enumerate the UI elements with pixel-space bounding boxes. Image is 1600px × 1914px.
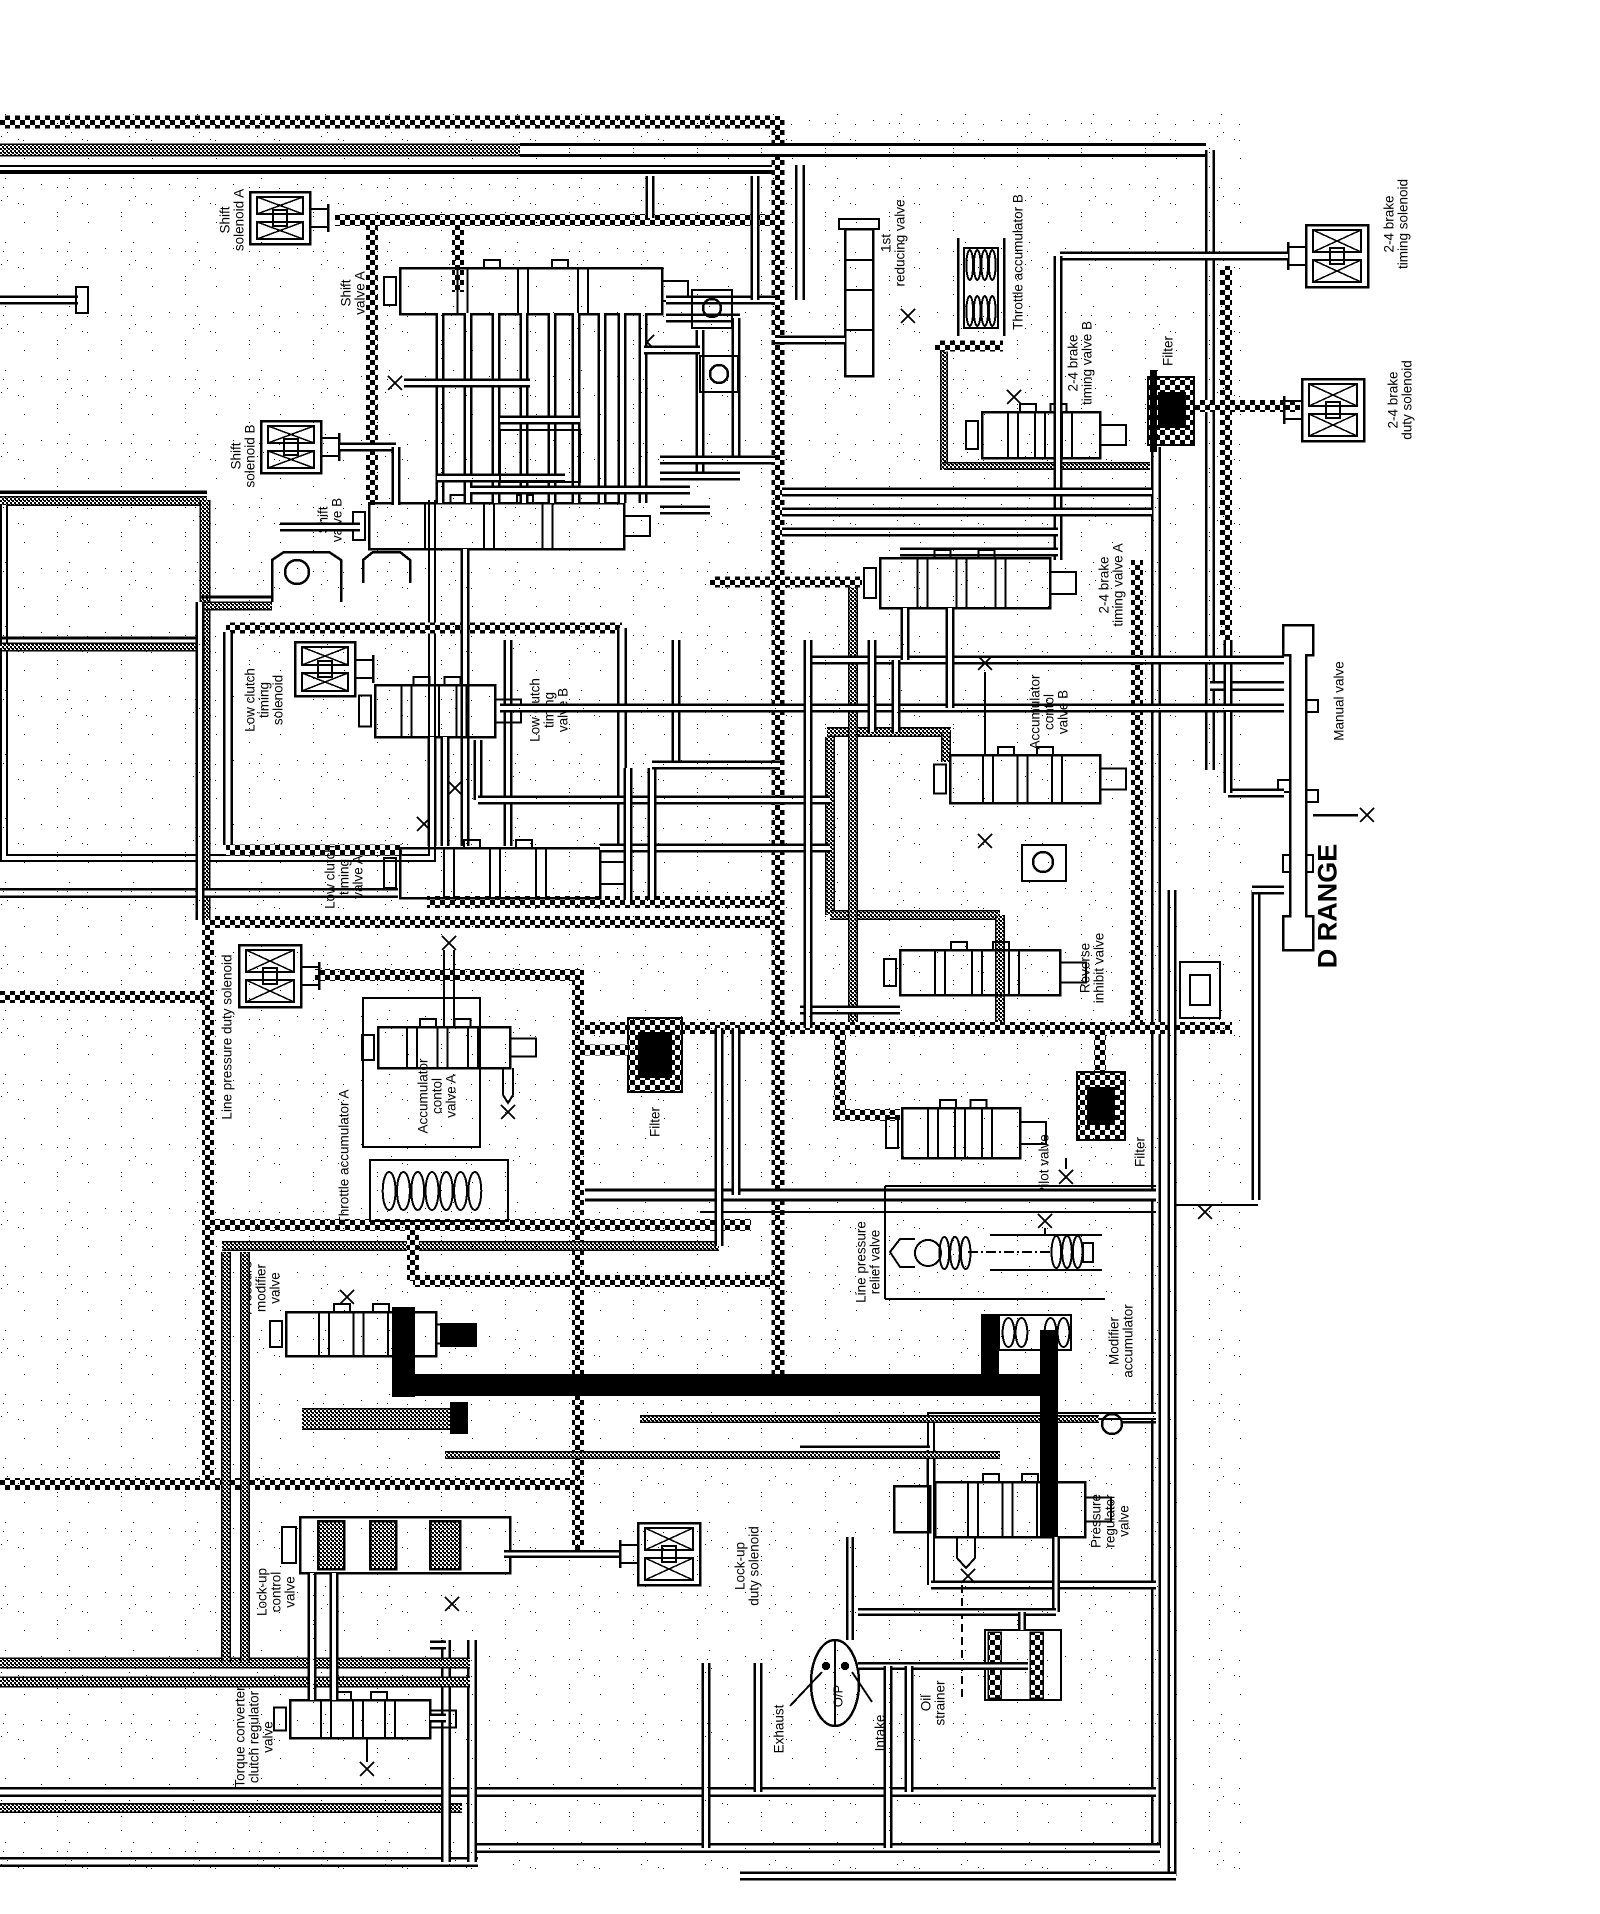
wire 1st reducing feed — [795, 165, 805, 300]
label low clutch timing valve B — [528, 678, 571, 742]
valve pressure regulator cap — [894, 1486, 930, 1532]
wire accB support — [935, 341, 1003, 352]
wire hatched filter2 drop — [1094, 1028, 1106, 1072]
valve pressure modifier black 1 — [392, 1307, 415, 1397]
wire valveB down 2 — [504, 640, 513, 846]
wire bottom riser 1 — [702, 1663, 711, 1848]
label pump OP — [831, 1685, 846, 1707]
wire stipple vertical 1 — [222, 1252, 231, 1663]
wire valveB out 1 — [660, 456, 775, 465]
label 2-4 brake duty solenoid — [1386, 360, 1415, 440]
wire bold black bar — [398, 1374, 1058, 1396]
label 2-4 brake timing valve A — [1097, 543, 1126, 626]
wire lockup down 1 — [308, 1573, 317, 1700]
label low clutch timing solenoid — [243, 668, 286, 732]
wire hatched pilot feed — [833, 1109, 900, 1121]
wire check riser 1 — [696, 330, 705, 480]
wire dashed drop — [961, 1585, 963, 1698]
valve pressure regulator — [935, 1474, 1111, 1537]
wire stipple box left — [941, 342, 948, 470]
svg-text:2-4 brake: 2-4 brake — [1386, 371, 1401, 428]
wire mid vertical c — [868, 640, 877, 732]
check ball 3 — [1033, 852, 1053, 872]
wire hatched top main line — [0, 116, 772, 129]
wire solenoid B link — [340, 443, 396, 452]
box relief bottom — [885, 1298, 1105, 1300]
wire stipple long vertical — [849, 582, 858, 1022]
valve pressure modifier — [270, 1304, 462, 1356]
wire lc box top — [226, 623, 622, 634]
wire hatched left stub — [0, 991, 208, 1003]
svg-text:2-4 brake: 2-4 brake — [1382, 195, 1397, 252]
valve 2-4 brake timing A — [864, 550, 1076, 608]
valve plug center mesh — [500, 430, 580, 482]
x-mark relief — [1038, 1214, 1052, 1228]
wire lockup to solenoid — [504, 1550, 620, 1558]
oil strainer — [985, 1630, 1061, 1700]
wire lc 2 — [441, 737, 450, 846]
wire lc down 3 — [672, 640, 681, 765]
wire stipple accB left — [826, 737, 835, 915]
wire hatched drop at modifier — [407, 1225, 419, 1281]
label shift solenoid B — [229, 424, 258, 487]
wire big stipple band upper — [0, 1658, 470, 1668]
wire mesh horizontal 1 — [500, 416, 580, 425]
wire tcc link — [430, 1714, 446, 1723]
wire reg vertical — [927, 1450, 936, 1487]
wire bold black bar right — [658, 1375, 1058, 1395]
valve low clutch timing B — [359, 677, 521, 737]
x-mark acc A bottom — [501, 1105, 515, 1119]
wire pump riser 1 — [884, 1666, 893, 1848]
svg-text:timing solenoid: timing solenoid — [1396, 179, 1411, 269]
wire stipple accB down — [996, 915, 1005, 1022]
wire mid pipe 2 — [810, 656, 1284, 665]
label filter top — [1161, 335, 1176, 366]
wire stipple vertical 2 — [241, 1252, 250, 1663]
spring throttle accumulator B coil — [966, 250, 995, 280]
x-mark manual valve — [1360, 808, 1374, 822]
valve accumulator control A — [362, 1019, 536, 1068]
wire top line b — [0, 172, 772, 174]
x-mark pilot valve — [1059, 1170, 1073, 1184]
wire lockup right — [430, 1641, 446, 1650]
wire solenoid B drop — [392, 447, 401, 505]
valve shift A — [384, 260, 688, 314]
wire left vertical stipple — [200, 500, 210, 920]
box throttle accumulator A — [370, 1160, 508, 1221]
wire reg to pump — [846, 1537, 854, 1640]
wire intake pointer — [852, 1672, 872, 1702]
check seat 1 — [692, 290, 732, 328]
box accumulator control A — [363, 998, 480, 1147]
svg-text:D RANGE: D RANGE — [1312, 844, 1342, 969]
wire hatched vertical right — [1220, 266, 1232, 640]
x-mark 1st reducing — [901, 309, 915, 323]
wire mesh vertical 2 — [464, 313, 473, 503]
wire hatched drop to shift valve B — [366, 220, 378, 505]
wire acc B stem — [984, 672, 986, 755]
wire mesh vertical 3 — [492, 313, 501, 503]
solenoid 2-4 brake duty — [1284, 379, 1364, 441]
label filter mid — [1133, 1136, 1148, 1167]
spring relief 2 — [1052, 1236, 1083, 1268]
wire brake pipe 2 — [782, 508, 1152, 517]
wire hatched solenoid A feed — [335, 214, 772, 226]
wire hatched filter1 link — [1188, 400, 1300, 412]
label shift solenoid A — [218, 189, 247, 251]
spring modifier accumulator right — [1045, 1318, 1070, 1347]
wire valveB out long — [660, 506, 710, 515]
wire stipple accB top — [827, 728, 951, 737]
wire hatched pilot feed vertical — [834, 1028, 846, 1110]
wire torque converter loop left — [441, 1640, 451, 1862]
wire lc horizontal 3 — [652, 761, 780, 770]
scan noise overlay — [0, 105, 1255, 1875]
wire mesh horizontal 2 — [404, 379, 530, 388]
wire valveB down 1 — [461, 549, 470, 846]
svg-text:Manual valve: Manual valve — [1332, 661, 1347, 741]
wire valveB out 2 — [660, 472, 740, 481]
valve low clutch timing A — [384, 840, 626, 898]
valve pilot — [886, 1100, 1046, 1158]
label shift valve B — [316, 498, 345, 542]
label 1st reducing valve — [879, 199, 908, 286]
wire hatched drop into valve A — [452, 220, 464, 292]
x-mark acc B top — [978, 656, 992, 670]
wire lc down 1 — [624, 768, 633, 900]
wire 2-4 timing solenoid lead — [1060, 252, 1288, 261]
wire reg top stipple pipe — [640, 1416, 1099, 1423]
wire cups feed line — [200, 596, 272, 599]
spring throttle accumulator B coil2 — [966, 296, 995, 326]
box pressure regulator bottom — [931, 1581, 1156, 1590]
wire 24A down 1 — [901, 608, 910, 660]
wire lc box right — [617, 628, 627, 850]
wire pipe to manual valve top — [1210, 681, 1284, 691]
wire left inlet stipple — [0, 643, 205, 651]
wire cups feed stipple — [200, 602, 272, 610]
valve manual — [1278, 625, 1318, 950]
wire stipple accB bottom — [830, 911, 1000, 920]
wire manual port riser — [1224, 712, 1233, 793]
label pilot valve — [1037, 1134, 1052, 1196]
wire manual left pipe — [1252, 890, 1261, 1200]
wire lc 1 — [428, 737, 437, 846]
wire check col — [751, 176, 760, 300]
spring throttle accumulator A — [383, 1172, 482, 1210]
wire mesh vertical 4 — [520, 313, 529, 503]
x-mark acc A top — [442, 936, 456, 950]
wire top border band right — [520, 143, 1206, 157]
wire valveA out 2 — [666, 314, 740, 323]
wire top third line — [0, 170, 772, 172]
wire manual port 1 — [1228, 789, 1284, 798]
label manual valve — [1332, 661, 1347, 741]
wire relief stem — [1044, 1228, 1046, 1235]
wire left box top line — [0, 490, 207, 494]
x-mark 2-4 timing B — [1007, 390, 1021, 404]
x-mark low clutch A — [448, 781, 462, 795]
wire brake pipe 4 — [900, 548, 1058, 557]
wire hatched vertical center — [572, 975, 584, 1550]
valve 2-4 brake timing B — [966, 404, 1126, 458]
wire left edge stub — [0, 296, 78, 305]
solenoid 2-4 brake timing — [1288, 225, 1368, 287]
wire pump pipe 2 — [1018, 1612, 1026, 1630]
wire hatched valve9 link — [710, 577, 862, 588]
label modifier accumulator — [1107, 1304, 1136, 1378]
wire mesh horizontal 3 — [437, 474, 565, 483]
wire brake pipe 1 — [782, 488, 1152, 497]
pump O/P — [811, 1640, 859, 1726]
wire hatched lp-duty solenoid out — [315, 969, 584, 981]
wire reg pipe 2 — [800, 1446, 930, 1455]
filter mid right — [1077, 1072, 1125, 1140]
box relief top — [885, 1185, 1156, 1187]
label 2-4 brake timing solenoid — [1382, 179, 1411, 269]
label intake — [873, 1715, 888, 1752]
label shift valve A — [339, 271, 368, 315]
valve pressure regulator spike — [957, 1537, 975, 1568]
wire hatched below LC valve A — [427, 896, 782, 908]
wire left box top stipple — [0, 497, 207, 506]
valve reverse inhibit — [884, 942, 1086, 995]
wire long bottom pipe — [0, 1787, 1156, 1797]
box relief left — [884, 1186, 886, 1299]
wire hatched lp-duty box top — [202, 916, 778, 928]
x-mark tcc valve — [360, 1762, 374, 1776]
label lock-up control valve — [255, 1568, 298, 1616]
wire stipple band B — [222, 1242, 719, 1251]
wire web 1 — [585, 1189, 1156, 1202]
wire stipple box bottom — [944, 463, 1150, 470]
x-mark low clutch B — [417, 817, 431, 831]
wire mesh vertical 5 — [548, 313, 557, 503]
check ball 4 — [1102, 1414, 1122, 1434]
wire pump pipe — [858, 1608, 1056, 1616]
wire tcc stem — [366, 1738, 368, 1762]
label exhaust — [772, 1704, 787, 1753]
solenoid shift B — [261, 421, 339, 473]
wire lc box left — [223, 632, 233, 845]
wire stipple pipe mid — [445, 1452, 1000, 1459]
wire valveB left drop — [280, 523, 360, 532]
wire web 2 — [700, 1211, 1156, 1213]
check valve inline — [1180, 962, 1220, 1018]
x-mark right of valve A — [640, 335, 654, 349]
wire under box pipe — [0, 888, 398, 898]
x-mark acc B bottom — [978, 834, 992, 848]
x-mark below valve A — [388, 376, 402, 390]
label throttle accumulator A — [337, 1089, 352, 1224]
box pressure regulator — [931, 1416, 1156, 1585]
wire top line a — [0, 165, 772, 167]
wire web vertical 1 — [715, 1028, 724, 1246]
label throttle accumulator B — [1011, 194, 1026, 330]
check ball 2 — [710, 365, 728, 383]
wire mesh vertical 8 — [618, 313, 627, 503]
wire bottom border pipe — [470, 1843, 1160, 1853]
wire mid vertical b — [892, 660, 901, 732]
valve accumulator control B — [934, 747, 1126, 803]
label oil strainer — [919, 1680, 948, 1726]
wire above band pipe — [800, 1006, 900, 1015]
wire modifier spool segment — [302, 1409, 452, 1430]
check seat 3 — [1022, 845, 1066, 881]
x-mark pressure regulator — [961, 1569, 975, 1583]
solenoid line pressure duty — [239, 945, 319, 1007]
wire mid vertical a — [804, 640, 813, 1028]
label accumulator control valve B — [1028, 674, 1071, 750]
solenoid lock-up duty — [620, 1523, 700, 1585]
wire lc down 2 — [648, 768, 657, 900]
box modifier accumulator — [999, 1315, 1071, 1350]
wire lc horizontal 1 — [478, 796, 830, 805]
wire hatched band above lockup — [0, 1478, 578, 1490]
label pressure modifier valve — [240, 1261, 283, 1315]
wire web vertical 2 — [732, 1028, 741, 1195]
wire manual bottom link — [1176, 1204, 1258, 1206]
valve lock-up control — [282, 1517, 510, 1573]
x-mark lock-up control — [445, 1597, 459, 1611]
wire hatched valve9 vertical — [1131, 560, 1143, 1028]
x-mark pressure modifier — [340, 1290, 354, 1304]
wire valveA out 1 — [666, 296, 775, 305]
label lock-up duty solenoid — [733, 1526, 762, 1606]
label D RANGE — [1312, 844, 1342, 969]
wire mesh vertical 7 — [598, 313, 607, 503]
wire mesh to check — [644, 346, 700, 355]
port bracket left edge — [76, 287, 88, 313]
check cups group — [272, 552, 410, 602]
wire right pipe continue — [1224, 640, 1233, 714]
wire left down pipe — [196, 602, 205, 920]
wire acc A stem 2 — [453, 950, 455, 1027]
filter center — [628, 1018, 682, 1092]
wire 24A down 2 — [946, 608, 955, 708]
wire brake pipe 3 — [782, 528, 1058, 537]
spring relief 1 — [940, 1237, 971, 1269]
wire lockup down 2 — [330, 1573, 339, 1700]
wire hatched vertical left — [202, 917, 214, 1484]
wire reducing box right edge — [1054, 256, 1063, 560]
check seat 2 — [700, 356, 738, 392]
solenoid shift A — [250, 192, 328, 244]
label torque converter clutch regulator valve — [233, 1686, 276, 1788]
label line pressure duty solenoid — [220, 954, 235, 1119]
label reverse inhibit valve — [1078, 933, 1107, 1004]
solenoid low clutch timing — [295, 642, 373, 696]
wire black riser lower — [1040, 1395, 1058, 1537]
wire bottom stipple band — [0, 1804, 462, 1813]
valve line pressure relief — [890, 1235, 1102, 1270]
valve 1st reducing — [839, 219, 879, 376]
wire 1st reducing port — [775, 336, 845, 345]
wire stipple accB drop — [942, 732, 951, 762]
valve acc A spike — [503, 1068, 513, 1103]
wire bottom outer pipe — [0, 1857, 478, 1867]
wire hatched mid band — [585, 1022, 1232, 1034]
wire hatched long band A — [205, 1219, 751, 1231]
valve shift B — [353, 495, 650, 549]
wire acc A stem 1 — [443, 950, 445, 1027]
spring modifier accumulator left — [1003, 1318, 1028, 1347]
label low clutch timing valve A — [323, 845, 366, 909]
wire hatched band to lockup — [413, 1275, 778, 1287]
label pressure regulator valve — [1089, 1494, 1132, 1548]
label accumulator control valve A — [416, 1058, 459, 1134]
wire mesh vertical 6 — [572, 313, 581, 503]
wire right return pipe — [1168, 890, 1177, 1876]
wire left inlet line — [0, 637, 205, 640]
wire mid long pipe — [500, 704, 1284, 713]
wire hatched main vertical line — [772, 116, 785, 1385]
label 2-4 brake timing valve B — [1066, 321, 1095, 405]
wire mesh horizontal 4 — [470, 486, 690, 495]
valve modifier end block — [450, 1402, 468, 1434]
wire hatched filter3 stub — [584, 1045, 628, 1056]
wire reg top pipe tail — [1122, 1421, 1156, 1424]
valve pressure modifier black 2 — [440, 1323, 477, 1347]
check ball 1 — [703, 299, 721, 317]
wire reg right drop — [1052, 1537, 1060, 1612]
wire lc horizontal 2 — [600, 844, 830, 853]
wire pilot stem — [1065, 1158, 1067, 1169]
wire manual port 2 — [1252, 886, 1284, 895]
wire pump riser 2 — [905, 1666, 914, 1792]
wire bottom outer pipe right — [740, 1872, 1176, 1881]
wire black modifier link — [981, 1314, 999, 1394]
wire bottom riser 2 — [754, 1663, 763, 1792]
wire mesh vertical 1 — [436, 313, 445, 503]
wire torque converter loop right — [467, 1640, 477, 1862]
wire exhaust pointer — [790, 1672, 822, 1706]
box left large — [4, 500, 432, 858]
wire top border drop — [1205, 150, 1215, 770]
filter top right — [1148, 370, 1194, 452]
label filter center — [648, 1106, 663, 1137]
wire manual valve stem — [1313, 814, 1358, 817]
wire lc 3 — [474, 740, 483, 800]
wire top border band left — [0, 144, 520, 156]
wire big stipple band lower — [0, 1677, 470, 1687]
wire strainer link — [858, 1662, 1028, 1670]
valve torque converter clutch regulator — [274, 1692, 456, 1738]
svg-text:duty solenoid: duty solenoid — [1400, 360, 1415, 440]
wire bold black riser — [1040, 1330, 1058, 1378]
wire mesh vertical 9 — [639, 313, 648, 503]
wire top drop mid — [646, 176, 655, 218]
wire lc box bottom — [226, 845, 402, 856]
accumulator throttle B — [958, 238, 1004, 336]
wire right border vertical pipe — [1151, 447, 1161, 1848]
wire check riser 2 — [732, 318, 741, 460]
x-mark lower web 2 — [1198, 1205, 1212, 1219]
label line pressure relief valve — [854, 1221, 883, 1303]
